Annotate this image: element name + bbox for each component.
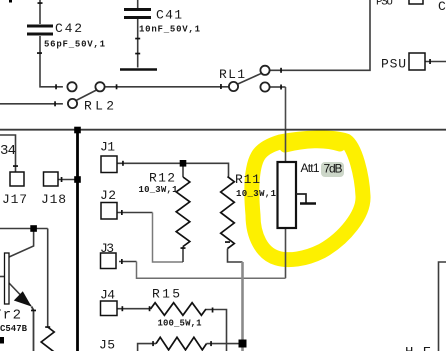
svg-text:PSU: PSU xyxy=(376,0,393,9)
svg-text:C41: C41 xyxy=(156,8,182,23)
svg-text:C42: C42 xyxy=(55,21,82,36)
svg-text:R11: R11 xyxy=(235,172,260,187)
svg-text:34: 34 xyxy=(0,143,16,159)
svg-text:Att1: Att1 xyxy=(301,161,320,175)
svg-text:J17: J17 xyxy=(2,192,27,207)
svg-text:Tr2: Tr2 xyxy=(0,308,21,324)
svg-text:10_3W,1: 10_3W,1 xyxy=(236,189,277,199)
svg-text:J18: J18 xyxy=(41,192,66,207)
svg-text:J5: J5 xyxy=(99,338,115,351)
svg-text:56pF_50V,1: 56pF_50V,1 xyxy=(44,40,106,50)
svg-text:PSU: PSU xyxy=(381,57,406,72)
svg-text:J4: J4 xyxy=(100,288,115,303)
svg-text:10nF_50V,1: 10nF_50V,1 xyxy=(139,25,201,35)
svg-text:C: C xyxy=(438,0,446,14)
svg-text:R12: R12 xyxy=(149,171,175,186)
svg-text:J3: J3 xyxy=(100,241,114,256)
svg-text:7dB: 7dB xyxy=(324,162,343,176)
svg-text:10_3W,1: 10_3W,1 xyxy=(139,185,179,195)
svg-text:J1: J1 xyxy=(100,140,115,155)
svg-text:J2: J2 xyxy=(100,188,116,203)
svg-text:C547B: C547B xyxy=(0,324,28,334)
svg-text:R15: R15 xyxy=(152,287,180,302)
svg-text:100_5W,1: 100_5W,1 xyxy=(158,319,203,329)
svg-text:RL2: RL2 xyxy=(84,99,114,114)
svg-text:RL1: RL1 xyxy=(219,67,245,82)
